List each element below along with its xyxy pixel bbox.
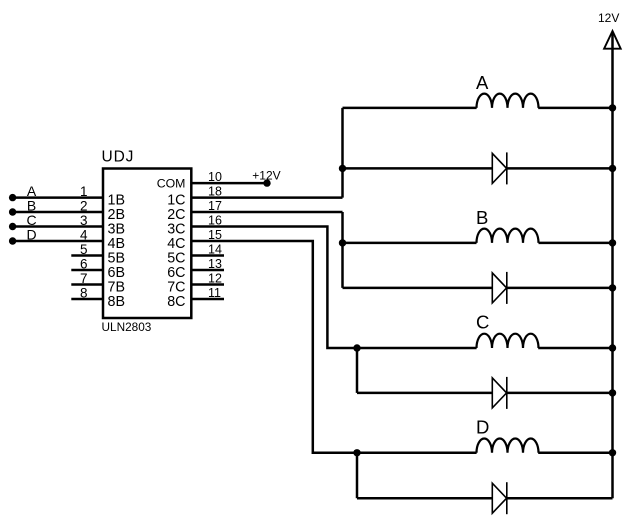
- svg-text:6: 6: [80, 256, 88, 271]
- inductor coil A: [477, 94, 539, 108]
- wire pin 13 stub: [191, 269, 224, 272]
- svg-text:15: 15: [208, 228, 222, 242]
- wire pin 10 COM to +12V: [191, 182, 267, 185]
- node +12V dot: [263, 179, 270, 186]
- wire diode A row: [343, 167, 613, 170]
- wire pin 11 stub: [191, 298, 224, 301]
- wire input B: [13, 211, 103, 214]
- wire coil C left lead: [357, 347, 477, 350]
- svg-text:8B: 8B: [108, 294, 126, 310]
- svg-text:5: 5: [80, 242, 88, 257]
- wire vertical D branch: [356, 453, 359, 498]
- svg-text:COM: COM: [157, 177, 186, 191]
- terminal dot input C: [9, 223, 16, 230]
- diode D: [492, 482, 507, 514]
- svg-text:7: 7: [80, 271, 88, 286]
- wire input C: [13, 225, 103, 228]
- svg-text:8: 8: [80, 285, 88, 300]
- wire vertical C branch: [356, 348, 359, 393]
- wire 2C to node B: [191, 211, 342, 214]
- svg-text:D: D: [26, 226, 36, 242]
- svg-text:ULN2803: ULN2803: [102, 320, 152, 334]
- wire pin 5 stub: [71, 254, 103, 257]
- wire 3C to node C: [191, 227, 357, 349]
- wire 1C to node A: [191, 196, 342, 199]
- wire input D: [13, 240, 103, 243]
- wire vertical A branch: [341, 108, 344, 198]
- terminal dot input A: [9, 194, 16, 201]
- svg-text:A: A: [476, 72, 489, 93]
- wire pin 14 stub: [191, 254, 224, 257]
- junction dot bus diode A: [609, 165, 616, 172]
- inductor coil B: [477, 229, 539, 243]
- junction dot bus coil D: [609, 449, 616, 456]
- svg-text:12: 12: [208, 271, 222, 285]
- svg-text:4: 4: [80, 227, 88, 242]
- diode B: [492, 272, 507, 304]
- wire 4C to node D: [191, 241, 357, 453]
- junction dot coil B left: [339, 239, 346, 246]
- wire pin 12 stub: [191, 283, 224, 286]
- wire vertical B branch: [341, 212, 344, 288]
- op-amp U1 IC box UDJ: [103, 169, 191, 319]
- svg-text:13: 13: [208, 257, 222, 271]
- wire diode D row: [357, 497, 613, 500]
- wire coil C right lead: [538, 347, 612, 350]
- wire pin 6 stub: [71, 269, 103, 272]
- svg-text:UDJ: UDJ: [102, 148, 135, 165]
- junction dot bus diode B: [609, 284, 616, 291]
- diode A: [492, 152, 507, 184]
- power symbol 12V arrow: [604, 31, 621, 49]
- terminal dot input D: [9, 237, 16, 244]
- wire coil D right lead: [538, 452, 612, 455]
- inductor coil C: [477, 334, 539, 348]
- wire coil D left lead: [357, 452, 477, 455]
- junction dot bus diode C: [609, 389, 616, 396]
- svg-text:D: D: [476, 416, 489, 437]
- svg-text:14: 14: [208, 242, 222, 256]
- diode C: [492, 377, 507, 409]
- junction dot bus coil A: [609, 104, 616, 111]
- svg-text:10: 10: [208, 170, 222, 184]
- wire diode B row: [343, 287, 613, 290]
- svg-text:18: 18: [208, 184, 222, 198]
- svg-text:11: 11: [208, 286, 221, 300]
- svg-text:2: 2: [80, 198, 88, 213]
- svg-text:C: C: [476, 311, 489, 332]
- wire input A: [13, 196, 103, 199]
- wire coil B left lead: [343, 242, 477, 245]
- junction dot bus coil B: [609, 239, 616, 246]
- svg-text:3: 3: [80, 213, 88, 228]
- wire pin 7 stub: [71, 283, 103, 286]
- wire coil A right lead: [538, 107, 612, 110]
- svg-text:17: 17: [208, 199, 222, 213]
- svg-text:12V: 12V: [598, 11, 619, 25]
- junction dot coil C left: [353, 344, 360, 351]
- terminal dot input B: [9, 208, 16, 215]
- svg-text:B: B: [476, 207, 488, 228]
- svg-text:+12V: +12V: [252, 169, 280, 183]
- wire coil A left lead: [343, 107, 477, 110]
- wire pin 8 stub: [71, 298, 103, 301]
- inductor coil D: [477, 439, 539, 453]
- wire coil B right lead: [539, 242, 613, 245]
- svg-text:8C: 8C: [167, 294, 185, 310]
- wire diode C row: [357, 392, 613, 395]
- junction dot coil D left: [353, 449, 360, 456]
- junction dot bus coil C: [609, 344, 616, 351]
- svg-text:1: 1: [80, 184, 88, 199]
- junction dot diode A left: [339, 165, 346, 172]
- wire 12V supply bus: [611, 32, 614, 498]
- svg-text:16: 16: [208, 213, 222, 227]
